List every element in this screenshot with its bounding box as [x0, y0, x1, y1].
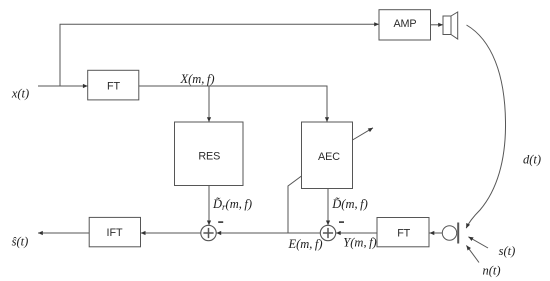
- svg-text:AEC: AEC: [318, 151, 340, 163]
- wire: x(t) input into FT: [38, 85, 88, 87]
- block RES: [175, 122, 244, 186]
- microphone: [442, 223, 458, 244]
- wire: echo path d(t) curve from speaker to microphone: [466, 25, 505, 228]
- minus sign at summer 1: [218, 221, 223, 223]
- wire: branch up from x(t) line: [59, 24, 61, 86]
- svg-text:s(t): s(t): [499, 244, 516, 258]
- summer 1 (residual subtraction): [201, 225, 216, 240]
- block AMP: [379, 10, 431, 40]
- svg-text:D̃(m, f): D̃(m, f): [331, 197, 367, 211]
- svg-text:d(t): d(t): [523, 152, 541, 166]
- wire: arrow into AEC top: [326, 112, 328, 122]
- svg-text:FT: FT: [397, 228, 410, 240]
- wire: RES output to summer 1: [208, 186, 210, 226]
- wire: IFT output s^(t): [38, 232, 89, 234]
- wire: n(t) arrow into microphone: [466, 245, 479, 262]
- wire: AEC adaptation arrow (top-right): [353, 128, 374, 140]
- wire: AMP to loudspeaker: [431, 24, 444, 26]
- minus sign at summer 2: [339, 221, 344, 223]
- svg-text:FT: FT: [107, 80, 120, 92]
- wire: s(t) arrow into microphone: [468, 237, 488, 248]
- svg-text:ŝ(t): ŝ(t): [12, 234, 29, 248]
- junction: drop to RES: [208, 86, 210, 122]
- wire: summer2 to summer1, E(m,f): [216, 232, 320, 234]
- wire: microphone to FT: [430, 232, 443, 234]
- summer 2 (echo subtraction): [320, 225, 335, 240]
- svg-text:RES: RES: [198, 151, 220, 163]
- svg-text:D̃r(m, f): D̃r(m, f): [212, 197, 252, 212]
- svg-text:X(m, f): X(m, f): [179, 72, 214, 86]
- wire: FT to summer 2: [336, 232, 377, 234]
- block AEC: [302, 122, 353, 189]
- loudspeaker: [443, 12, 458, 39]
- svg-text:Y(m, f): Y(m, f): [343, 236, 376, 250]
- block FT (microphone path): [377, 218, 429, 247]
- svg-text:n(t): n(t): [482, 263, 500, 277]
- wire: AEC output to summer 2: [327, 189, 329, 226]
- svg-text:AMP: AMP: [393, 18, 416, 30]
- block FT (analysis): [88, 70, 139, 100]
- wire: E feedback up into AEC: [288, 176, 302, 233]
- wire: X(m,f) bus from FT to AEC corner: [139, 86, 327, 122]
- wire: summer1 to IFT: [141, 232, 201, 234]
- svg-text:E(m, f): E(m, f): [287, 237, 322, 251]
- svg-text:IFT: IFT: [107, 227, 123, 239]
- svg-text:x(t): x(t): [11, 87, 29, 101]
- block IFT: [89, 217, 140, 246]
- wire: top run to AMP: [60, 23, 380, 25]
